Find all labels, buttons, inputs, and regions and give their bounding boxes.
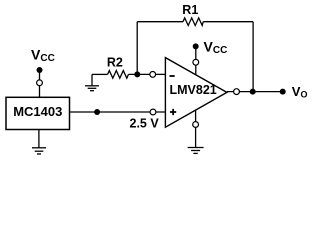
plus symbol (noninverting input)	[170, 109, 176, 115]
VCC supply (MC1403)	[31, 47, 55, 74]
wire: VCC to MC1403 top pin	[39, 70, 41, 97]
wire: feedback right vertical to output node	[252, 22, 254, 92]
wire: ground to R2	[92, 73, 108, 75]
wire: MC1403 bottom to ground	[38, 130, 40, 148]
svg-text:MC1403: MC1403	[13, 104, 62, 119]
pin circle: op-amp output	[234, 89, 240, 95]
svg-text:2.5 V: 2.5 V	[130, 117, 160, 131]
svg-text:R2: R2	[107, 56, 123, 70]
wire: feedback left vertical (node A to R1)	[136, 22, 138, 75]
pin circle: op-amp V- pin	[193, 122, 199, 128]
ground (MC1403)	[32, 148, 46, 154]
terminal dot VO	[280, 89, 286, 95]
op-amp U1 LMV821	[165, 58, 227, 128]
svg-text:R1: R1	[182, 3, 198, 17]
VCC supply (op-amp)	[193, 39, 228, 57]
wire: op-amp V- pin to ground	[195, 110, 197, 148]
wire: op-amp output to VO terminal	[227, 91, 283, 93]
wire: feedback top right segment	[203, 21, 253, 23]
junction dot: feedback / output node	[250, 89, 256, 95]
wire: feedback top left segment	[137, 21, 183, 23]
pin circle: MC1403 VCC pin	[37, 80, 43, 86]
resistor R1	[182, 3, 203, 26]
wire: MC1403 output to noninverting input (2.5 V net)	[70, 111, 166, 113]
resistor R2	[107, 56, 129, 79]
svg-text:LMV821: LMV821	[170, 83, 217, 97]
pin circle: noninverting input	[150, 109, 156, 115]
pin circle: inverting input	[150, 72, 156, 78]
pin circle: op-amp V+ pin	[193, 59, 199, 65]
node A junction dot (R2 / feedback)	[134, 71, 140, 77]
ground (R2 left)	[85, 74, 99, 90]
ground (op-amp)	[188, 148, 204, 154]
wire: R2 to inverting input	[129, 73, 166, 75]
voltage reference U2 MC1403	[6, 97, 70, 129]
minus symbol (inverting input)	[170, 75, 175, 77]
junction dot on 2.5 V net	[94, 109, 100, 115]
wire: VCC to op-amp power pin	[195, 46, 197, 75]
